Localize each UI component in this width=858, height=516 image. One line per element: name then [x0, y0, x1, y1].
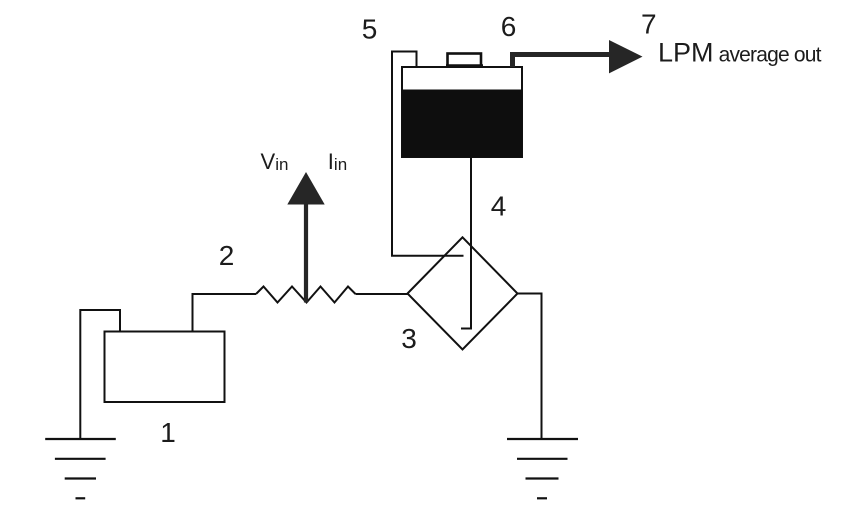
thick output wire (node 6)	[513, 55, 611, 68]
wire: resistor to mixer diamond 3	[356, 293, 408, 295]
svg-text:1: 1	[160, 417, 176, 448]
mixer / multiplier 3 (diamond)	[408, 237, 518, 349]
wire: box 1 left lead up-over-down to left ground	[80, 310, 120, 439]
svg-text:5: 5	[362, 14, 378, 45]
ground (left)	[45, 439, 116, 498]
svg-text:6: 6	[501, 11, 517, 42]
wire 4: meter bottom lead down into mixer, with end tick	[461, 157, 471, 329]
svg-text:3: 3	[401, 323, 417, 354]
svg-text:2: 2	[219, 240, 235, 271]
ground (right)	[507, 439, 578, 498]
meter body (outer white box)	[402, 67, 522, 157]
svg-text:Iin: Iin	[328, 149, 347, 174]
meter terminal tab thick base	[446, 64, 483, 67]
wire: mixer right output down to right ground	[518, 294, 542, 439]
svg-text:Vin: Vin	[261, 149, 289, 174]
wire: box 1 top-right lead to resistor 2	[193, 294, 257, 332]
wire 5: meter top-left lead down to mixer input	[392, 52, 464, 256]
source box 1	[105, 332, 225, 403]
resistor R (2) zigzag	[256, 287, 356, 303]
meter black fill region	[402, 90, 522, 158]
probe arrow shaft (Vin / Iin tap)	[304, 200, 308, 303]
probe arrowhead	[287, 172, 324, 205]
svg-text:7: 7	[641, 9, 657, 40]
output arrowhead (7)	[609, 40, 643, 73]
svg-text:LPM average out: LPM average out	[658, 38, 822, 68]
svg-text:4: 4	[491, 191, 507, 222]
meter terminal tab (top)	[448, 54, 482, 67]
